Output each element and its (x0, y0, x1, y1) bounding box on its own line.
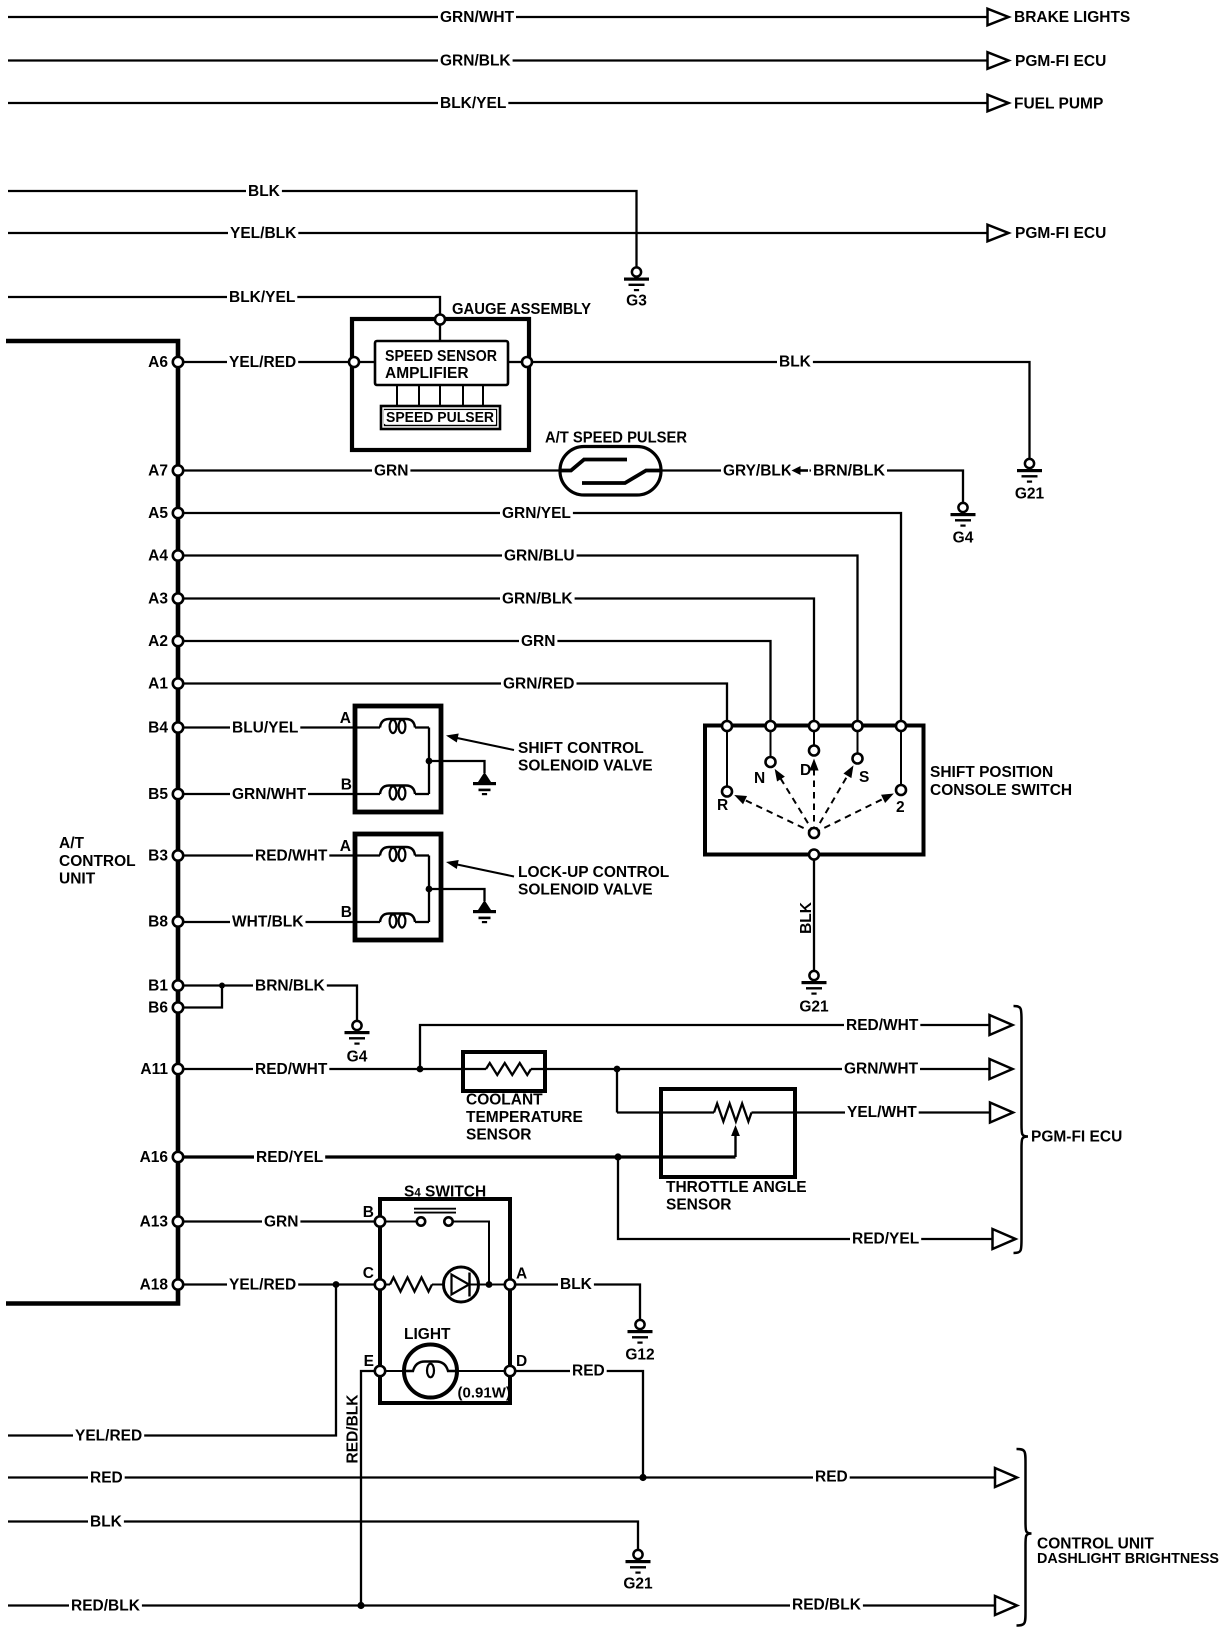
svg-text:A/T SPEED PULSER: A/T SPEED PULSER (545, 430, 687, 447)
connector arrow YEL/WHT ECU (990, 1103, 1013, 1123)
svg-text:G21: G21 (1015, 486, 1045, 503)
wire GRN/WHT to ECU (545, 1068, 990, 1070)
wire GRN/BLK to console switch (183, 599, 814, 727)
svg-text:RED: RED (90, 1470, 123, 1487)
throttle angle sensor box (661, 1089, 795, 1177)
junction A11 (417, 1066, 424, 1073)
svg-text:B4: B4 (148, 720, 168, 737)
pin A16 (173, 1152, 183, 1162)
svg-text:B3: B3 (148, 848, 168, 865)
node gauge right (522, 357, 532, 367)
svg-text:RED: RED (815, 1469, 848, 1486)
label GRN/BLK (438, 53, 513, 68)
svg-text:R: R (717, 797, 728, 814)
coolant sensor resistor (486, 1063, 531, 1075)
label BLK bottom (88, 1514, 124, 1529)
pin C S4 (375, 1279, 385, 1289)
pin D S4 (505, 1366, 515, 1376)
node gauge top (435, 315, 445, 325)
svg-text:PGM-FI ECU: PGM-FI ECU (1031, 1129, 1122, 1146)
wire BLK to ground G21 bottom (8, 1522, 638, 1551)
svg-text:G4: G4 (347, 1049, 368, 1066)
ground G21 bottom (633, 1550, 642, 1559)
svg-text:A5: A5 (148, 505, 168, 522)
pin A6 (173, 357, 183, 367)
wire A11 RED/WHT (183, 1068, 463, 1070)
wire A7 GRN (183, 469, 560, 471)
svg-text:GRN/RED: GRN/RED (503, 676, 574, 693)
lock-up control solenoid valve box (355, 834, 441, 940)
wire GRN/BLU to console switch (183, 556, 858, 727)
wire B to contacts (385, 1221, 417, 1223)
S4 switch box (380, 1199, 510, 1403)
svg-text:A16: A16 (140, 1149, 169, 1166)
pin E S4 (375, 1366, 385, 1376)
shift control solenoid valve box (355, 706, 441, 812)
svg-text:BLK/YEL: BLK/YEL (440, 95, 506, 112)
svg-text:SPEED SENSOR: SPEED SENSOR (385, 348, 497, 365)
connector arrow RED/YEL ECU (993, 1229, 1016, 1249)
svg-text:BRAKE LIGHTS: BRAKE LIGHTS (1014, 9, 1130, 26)
svg-text:GRY/BLK: GRY/BLK (723, 463, 793, 480)
pin B6 (173, 1002, 183, 1012)
speed pulser box (381, 406, 500, 429)
connector arrow PGM-FI ECU (988, 52, 1009, 69)
svg-text:GRN: GRN (264, 1214, 298, 1231)
wire coolant sensor internal (463, 1068, 486, 1070)
label RED/WHT B3 (253, 848, 329, 863)
svg-text:SOLENOID VALVE: SOLENOID VALVE (518, 758, 653, 775)
svg-text:A: A (340, 710, 351, 727)
pin A S4 (505, 1279, 515, 1289)
junction lock-up control (426, 886, 433, 893)
svg-text:GRN/BLU: GRN/BLU (504, 548, 575, 565)
A/T speed pulser oval (560, 447, 661, 496)
wire GRN to console switch (183, 641, 771, 726)
amplifier to pulser pins (396, 385, 398, 406)
svg-text:GRN/WHT: GRN/WHT (232, 786, 307, 803)
pin A4 (173, 550, 183, 560)
arrow to shift solenoid (450, 737, 514, 751)
label GRN/WHT (438, 9, 516, 24)
ground G4 left (352, 1021, 361, 1030)
label GRN/BLU (502, 548, 577, 563)
bottom node (809, 850, 819, 860)
svg-text:RED/BLK: RED/BLK (345, 1394, 362, 1464)
wire right contact down to A (453, 1222, 490, 1285)
svg-text:COOLANT: COOLANT (466, 1092, 543, 1109)
wire A13 GRN (183, 1220, 375, 1222)
svg-text:BLK: BLK (560, 1276, 593, 1293)
label GRN/WHT ECU (842, 1061, 920, 1076)
svg-text:RED/WHT: RED/WHT (255, 1061, 328, 1078)
ground shift control (478, 772, 491, 782)
svg-text:GRN/BLK: GRN/BLK (440, 53, 511, 70)
svg-text:A13: A13 (140, 1214, 169, 1231)
pin B S4 (375, 1216, 385, 1226)
svg-text:A7: A7 (148, 463, 168, 480)
pin B8 (173, 916, 183, 926)
label RED D (570, 1363, 607, 1378)
pin A11 (173, 1064, 183, 1074)
arrow to lock-up solenoid (450, 863, 514, 877)
wire coils to ground shift control (428, 728, 430, 762)
svg-text:GRN/BLK: GRN/BLK (502, 591, 573, 608)
top node S (853, 721, 863, 731)
throttle sensor resistor (714, 1104, 752, 1122)
pivot node (809, 828, 819, 838)
label SPEED PULSER (384, 410, 496, 424)
wire BLK gauge to ground G21 (532, 362, 1030, 459)
wire B shift control solenoid (183, 793, 380, 795)
label GRN/BLK 2 (500, 591, 575, 606)
label BLK 2 (777, 354, 813, 369)
contact N (766, 757, 776, 767)
label BLK vertical (797, 897, 812, 939)
label RED/YEL A16 (254, 1149, 325, 1164)
speed sensor amplifier box (375, 341, 508, 385)
pin A13 (173, 1216, 183, 1226)
label BRN/BLK (811, 463, 887, 478)
label RED right (813, 1469, 850, 1484)
wire A BLK to ground G12 (515, 1285, 640, 1321)
svg-text:BRN/BLK: BRN/BLK (813, 463, 886, 480)
coil B lock-up control (380, 914, 415, 923)
switch blade (414, 1208, 456, 1210)
wire E stub RED/BLK down (361, 1371, 375, 1606)
switch contact left (417, 1217, 425, 1225)
svg-text:FUEL PUMP: FUEL PUMP (1014, 96, 1103, 113)
contact D (809, 746, 819, 756)
wire YEL/RED bottom (8, 1285, 336, 1436)
svg-text:BLK: BLK (779, 354, 812, 371)
svg-text:UNIT: UNIT (59, 871, 96, 888)
pin B5 (173, 789, 183, 799)
svg-text:GRN/WHT: GRN/WHT (440, 9, 515, 26)
wire bulb to D (457, 1370, 505, 1372)
shift position console switch box (705, 726, 924, 855)
svg-text:A6: A6 (148, 354, 168, 371)
pin A18 (173, 1279, 183, 1289)
svg-text:SOLENOID VALVE: SOLENOID VALVE (518, 882, 653, 899)
svg-text:G3: G3 (626, 293, 647, 310)
ground G4 right (958, 503, 967, 512)
light bulb (404, 1345, 457, 1398)
svg-text:GRN/WHT: GRN/WHT (844, 1061, 919, 1078)
svg-text:B8: B8 (148, 914, 168, 931)
wire RED bottom (8, 1476, 995, 1478)
wire A shift control solenoid (183, 726, 380, 728)
label RED/YEL ECU (850, 1231, 921, 1246)
junction B1 B6 (219, 983, 225, 989)
svg-text:B: B (363, 1204, 374, 1221)
svg-text:B: B (341, 777, 352, 794)
ground lock-up control (478, 900, 491, 910)
wire A6 YEL/RED (183, 361, 375, 363)
svg-text:A18: A18 (140, 1277, 169, 1294)
contact 2 (896, 785, 906, 795)
label GRN/RED (501, 676, 577, 691)
ground G21 top (1025, 459, 1034, 468)
wire B lock-up control solenoid (183, 921, 380, 923)
svg-text:YEL/WHT: YEL/WHT (847, 1104, 917, 1121)
svg-text:D: D (516, 1353, 527, 1370)
svg-text:YEL/BLK: YEL/BLK (230, 225, 297, 242)
node gauge left (349, 357, 359, 367)
svg-text:SHIFT POSITION: SHIFT POSITION (930, 764, 1053, 781)
pin B4 (173, 722, 183, 732)
label GRN A13 (262, 1214, 300, 1229)
svg-text:SENSOR: SENSOR (666, 1197, 731, 1214)
svg-text:A: A (516, 1266, 527, 1283)
diode D1 (444, 1267, 479, 1302)
junction RED (639, 1474, 646, 1481)
connector arrow FUEL PUMP (988, 95, 1009, 112)
top node R (722, 721, 732, 731)
svg-text:B6: B6 (148, 1000, 168, 1017)
svg-text:B: B (341, 904, 352, 921)
svg-text:LOCK-UP CONTROL: LOCK-UP CONTROL (518, 864, 669, 881)
svg-text:RED/BLK: RED/BLK (792, 1597, 862, 1614)
svg-text:YEL/RED: YEL/RED (229, 1277, 296, 1294)
connector arrow RED (995, 1468, 1017, 1487)
svg-text:CONTROL: CONTROL (59, 853, 136, 870)
svg-text:G21: G21 (623, 1576, 653, 1593)
label YEL/RED A18 (227, 1277, 298, 1292)
pin A2 (173, 636, 183, 646)
PGM-FI ECU brace (1014, 1006, 1029, 1253)
wire YEL/BLK to PGM-FI ECU (8, 232, 988, 234)
top node 2 (896, 721, 906, 731)
control unit brace (1017, 1449, 1032, 1626)
junction GRN/WHT (614, 1066, 621, 1073)
ground G12 (635, 1320, 644, 1329)
top node D (809, 721, 819, 731)
svg-text:GRN: GRN (521, 633, 555, 650)
throttle wiper (734, 1133, 736, 1157)
svg-text:AMPLIFIER: AMPLIFIER (385, 365, 469, 382)
wire amplifier right to BLK (508, 361, 522, 363)
label GRN/YEL (500, 505, 573, 520)
connector arrow RED/BLK (995, 1596, 1017, 1615)
connector arrow RED/WHT ECU (990, 1015, 1013, 1035)
svg-text:A/T: A/T (59, 835, 85, 852)
svg-text:A2: A2 (148, 633, 168, 650)
wire amplifier to gauge top (439, 320, 441, 341)
junction shift control (426, 758, 433, 765)
svg-text:YEL/RED: YEL/RED (75, 1428, 142, 1445)
label BRN/BLK 2 (253, 978, 327, 993)
contact S (853, 754, 863, 764)
svg-text:SPEED PULSER: SPEED PULSER (386, 410, 495, 426)
pin A5 (173, 508, 183, 518)
wire A18 YEL/RED (183, 1283, 375, 1285)
wire YEL/WHT row (617, 1111, 714, 1113)
svg-text:A1: A1 (148, 676, 168, 693)
label YEL/BLK (228, 225, 298, 240)
wire switch BLK to ground G21 (813, 860, 815, 972)
coolant temperature sensor box (463, 1052, 545, 1091)
svg-text:C: C (363, 1265, 374, 1282)
wire GRY/BLK BRN/BLK to ground G4 (661, 471, 963, 504)
wire diode to A (479, 1284, 506, 1286)
coil A shift control (380, 719, 415, 728)
wire GRN/BLK to PGM-FI ECU (8, 59, 988, 61)
ground G3 (632, 267, 641, 276)
coil A lock-up control (380, 847, 415, 856)
wire RED/BLK bottom (8, 1604, 995, 1606)
label RED/WHT A11 (253, 1061, 329, 1076)
svg-text:D: D (800, 762, 811, 779)
svg-text:S4 SWITCH: S4 SWITCH (404, 1184, 486, 1201)
junction A18 (333, 1281, 340, 1288)
top node N (766, 721, 776, 731)
svg-text:SHIFT CONTROL: SHIFT CONTROL (518, 740, 644, 757)
wire GRN/RED to console switch (183, 684, 727, 727)
svg-text:B5: B5 (148, 786, 168, 803)
wire branch down to YEL/WHT (616, 1069, 618, 1113)
wire GRN/YEL to console switch (183, 513, 901, 726)
label YEL/WHT ECU (845, 1104, 919, 1119)
svg-text:G4: G4 (953, 530, 974, 547)
label YEL/RED bottom (73, 1428, 144, 1443)
pin A1 (173, 678, 183, 688)
wire E to bulb (385, 1370, 404, 1372)
label RED/WHT ECU (844, 1017, 920, 1032)
label RED/BLK left (69, 1598, 142, 1613)
junction A16 (614, 1153, 621, 1160)
svg-text:BRN/BLK: BRN/BLK (255, 978, 326, 995)
svg-text:SENSOR: SENSOR (466, 1127, 531, 1144)
pin B3 (173, 850, 183, 860)
wire GRN/WHT to brake lights (8, 16, 988, 18)
pin B1 (173, 980, 183, 990)
svg-text:RED: RED (572, 1363, 605, 1380)
svg-text:2: 2 (896, 799, 905, 816)
svg-text:RED/BLK: RED/BLK (71, 1598, 141, 1615)
wire RED/YEL down to ECU (618, 1157, 993, 1239)
label GAUGE ASSEMBLY (450, 301, 593, 316)
wire D RED down (515, 1371, 643, 1478)
left arrow glyph (791, 464, 810, 477)
svg-text:RED/YEL: RED/YEL (852, 1231, 919, 1248)
selector dashed arrows (734, 759, 894, 834)
svg-text:S: S (859, 769, 869, 786)
svg-text:A: A (340, 838, 351, 855)
wire A lock-up control solenoid (183, 854, 380, 856)
S4 resistor (385, 1284, 390, 1286)
label RED left (88, 1470, 125, 1485)
contact stubs (727, 732, 901, 787)
pin A7 (173, 465, 183, 475)
label BLK A (558, 1276, 594, 1291)
svg-text:BLK: BLK (248, 183, 281, 200)
svg-text:A11: A11 (140, 1061, 168, 1078)
ground G21 switch (809, 971, 818, 980)
connector arrow GRN/WHT ECU (990, 1059, 1013, 1079)
svg-text:(0.91W): (0.91W) (458, 1385, 511, 1402)
contact R (722, 787, 732, 797)
connector arrow BRAKE LIGHTS (988, 9, 1009, 26)
label RED/BLK vertical (344, 1391, 360, 1467)
label RED/BLK right (790, 1597, 863, 1612)
svg-text:RED/WHT: RED/WHT (255, 848, 328, 865)
wire A16 RED/YEL (183, 1155, 736, 1158)
svg-text:YEL/RED: YEL/RED (229, 354, 296, 371)
svg-text:PGM-FI ECU: PGM-FI ECU (1015, 53, 1106, 70)
svg-text:CONSOLE SWITCH: CONSOLE SWITCH (930, 782, 1072, 799)
svg-text:LIGHT: LIGHT (404, 1326, 451, 1343)
switch contact right (444, 1217, 452, 1225)
svg-text:TEMPERATURE: TEMPERATURE (466, 1109, 583, 1126)
svg-text:N: N (754, 770, 765, 787)
svg-text:G21: G21 (799, 999, 829, 1016)
label GRN/WHT B5 (230, 786, 308, 801)
connector arrow PGM-FI ECU 2 (988, 225, 1009, 242)
svg-text:DASHLIGHT BRIGHTNESS: DASHLIGHT BRIGHTNESS (1037, 1550, 1219, 1567)
svg-text:B1: B1 (148, 978, 168, 995)
label GRN A2 (519, 633, 557, 648)
wire coils to ground lock-up control (428, 856, 430, 890)
svg-text:GAUGE ASSEMBLY: GAUGE ASSEMBLY (452, 301, 592, 318)
label GRN A7 (372, 463, 410, 478)
gauge assembly box (352, 319, 529, 450)
label WHT/BLK (230, 914, 306, 929)
svg-text:RED/WHT: RED/WHT (846, 1017, 919, 1034)
svg-text:BLK: BLK (798, 901, 815, 934)
svg-text:A3: A3 (148, 591, 168, 608)
label BLU/YEL (230, 720, 300, 735)
label BLK (246, 183, 282, 198)
wire BLK to ground G3 (8, 191, 637, 268)
wire B1 B6 BRN/BLK to ground G4 (183, 984, 222, 986)
coil B shift control (380, 786, 415, 795)
junction RED/BLK (357, 1602, 364, 1609)
svg-text:WHT/BLK: WHT/BLK (232, 914, 304, 931)
svg-text:PGM-FI ECU: PGM-FI ECU (1015, 225, 1106, 242)
label BLK/YEL 2 (227, 289, 297, 304)
wire BLK/YEL to gauge assembly (8, 297, 440, 320)
svg-text:A4: A4 (148, 548, 168, 565)
wire RED/WHT branch up to ECU (420, 1025, 990, 1069)
svg-text:BLK: BLK (90, 1514, 123, 1531)
svg-text:BLK/YEL: BLK/YEL (229, 289, 295, 306)
label YEL/RED A6 (227, 354, 298, 369)
wire BLK/YEL to fuel pump (8, 102, 988, 104)
label BLK/YEL (438, 95, 508, 110)
svg-text:GRN/YEL: GRN/YEL (502, 505, 571, 522)
svg-text:GRN: GRN (374, 463, 408, 480)
junction diode switch (486, 1281, 493, 1288)
label GRY/BLK (721, 463, 794, 478)
svg-text:BLU/YEL: BLU/YEL (232, 720, 298, 737)
svg-text:G12: G12 (625, 1347, 654, 1364)
pin A3 (173, 593, 183, 603)
svg-text:E: E (364, 1353, 374, 1370)
svg-text:RED/YEL: RED/YEL (256, 1149, 323, 1166)
A/T control unit bus (6, 341, 178, 1304)
svg-text:THROTTLE ANGLE: THROTTLE ANGLE (666, 1179, 807, 1196)
